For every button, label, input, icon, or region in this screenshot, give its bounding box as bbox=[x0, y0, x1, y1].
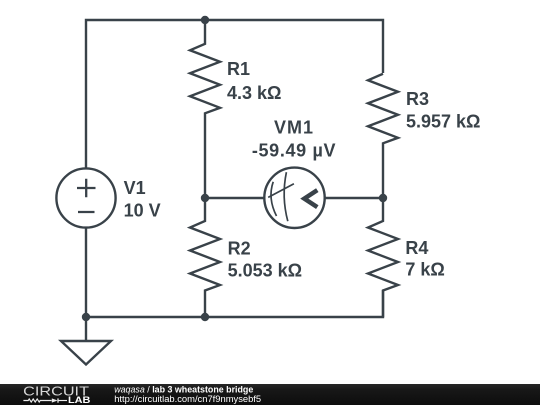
wire node A to voltmeter left terminal bbox=[205, 197, 265, 199]
svg-text:LAB: LAB bbox=[68, 395, 91, 405]
svg-text:5.053 kΩ: 5.053 kΩ bbox=[228, 260, 303, 280]
svg-text:4.3 kΩ: 4.3 kΩ bbox=[227, 83, 281, 103]
wire V1 bottom to ground node bbox=[85, 228, 87, 318]
wire voltmeter right terminal to node B bbox=[325, 197, 384, 199]
svg-text:7 kΩ: 7 kΩ bbox=[405, 260, 444, 280]
node: R1 top junction bbox=[201, 16, 209, 24]
svg-text:VM1: VM1 bbox=[274, 118, 314, 138]
wire top from V1 branch to R1 top node to R3 top corner bbox=[86, 20, 383, 169]
resistor R2 bbox=[190, 198, 220, 317]
svg-text:-59.49 µV: -59.49 µV bbox=[252, 141, 336, 161]
node B: R3/R4/VM1 junction bbox=[379, 194, 387, 202]
node A: R1/R2/VM1 junction bbox=[201, 194, 209, 202]
resistor R4 bbox=[368, 198, 398, 317]
footer bar bbox=[0, 384, 540, 405]
ground bbox=[61, 317, 111, 365]
node: ground junction bbox=[82, 313, 90, 321]
node: R2 bottom junction bbox=[201, 313, 209, 321]
svg-text:R4: R4 bbox=[405, 238, 428, 258]
resistor R3 bbox=[368, 74, 398, 198]
svg-text:R2: R2 bbox=[228, 238, 251, 258]
wire bottom rail bbox=[86, 290, 383, 317]
svg-text:V1: V1 bbox=[124, 178, 146, 198]
svg-text:http://circuitlab.com/cn7f9nmy: http://circuitlab.com/cn7f9nmysebf5 bbox=[114, 393, 261, 404]
resistor R1 bbox=[190, 20, 220, 198]
voltage source V1 bbox=[56, 168, 115, 227]
svg-text:5.957 kΩ: 5.957 kΩ bbox=[406, 111, 481, 131]
logo resistor + diode glyph bbox=[23, 398, 67, 402]
svg-text:10 V: 10 V bbox=[124, 200, 161, 220]
svg-text:R1: R1 bbox=[227, 59, 250, 79]
voltmeter VM1 bbox=[264, 168, 324, 228]
svg-text:R3: R3 bbox=[406, 89, 429, 109]
